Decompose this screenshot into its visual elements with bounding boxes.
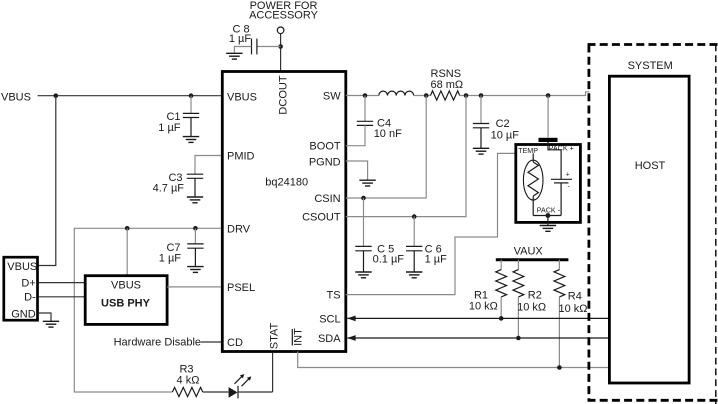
battery pack PACK+ terminal bar xyxy=(539,138,558,142)
wire C8 left lead xyxy=(234,47,251,54)
svg-text:STAT: STAT xyxy=(269,322,281,349)
thermistor in pack xyxy=(523,153,543,215)
capacitor C2 xyxy=(473,96,489,149)
capacitor C8 xyxy=(252,39,257,55)
svg-text:SW: SW xyxy=(323,91,341,103)
LED D1 xyxy=(229,374,273,398)
svg-text:VBUS: VBUS xyxy=(1,91,31,103)
svg-text:HOST: HOST xyxy=(635,160,666,172)
wire DRV run xyxy=(74,228,221,392)
svg-text:GND: GND xyxy=(11,309,36,321)
svg-text:PGND: PGND xyxy=(309,157,341,169)
node junction PACK- xyxy=(546,213,551,218)
ground below C1 xyxy=(183,137,199,143)
svg-text:USB PHY: USB PHY xyxy=(101,298,151,310)
capacitor C4 xyxy=(357,96,373,126)
svg-text:R4: R4 xyxy=(568,290,582,302)
svg-text:1 µF: 1 µF xyxy=(229,33,252,45)
node junction DRV/USB PHY xyxy=(125,226,130,231)
svg-text:SYSTEM: SYSTEM xyxy=(628,60,673,72)
svg-text:10 kΩ: 10 kΩ xyxy=(517,301,546,313)
svg-text:0.1 µF: 0.1 µF xyxy=(373,254,405,266)
resistor R1 xyxy=(496,260,507,319)
svg-text:VBUS: VBUS xyxy=(111,280,141,292)
svg-text:TEMP: TEMP xyxy=(518,146,538,155)
value label C7 xyxy=(159,242,182,264)
USB connector J1 box xyxy=(4,257,38,320)
svg-text:R2: R2 xyxy=(528,289,542,301)
value label C8 xyxy=(229,23,252,45)
svg-text:CSIN: CSIN xyxy=(314,193,340,205)
wire SDA arrowhead xyxy=(347,335,355,341)
node junction rail/PACK+ xyxy=(546,93,551,98)
svg-text:DRV: DRV xyxy=(227,224,251,236)
wire PACK+ internal lead xyxy=(548,142,561,179)
ground below C6 xyxy=(406,272,422,278)
wire INT overline xyxy=(291,329,293,346)
svg-text:4.7 µF: 4.7 µF xyxy=(153,183,185,195)
wire D- to USB PHY xyxy=(39,296,86,298)
wire GND stub xyxy=(39,313,52,321)
ground below C7 xyxy=(187,267,203,273)
node junction INT/R4 xyxy=(557,365,562,370)
SYSTEM dashed box top edge xyxy=(588,43,718,46)
node junction SCL/R1 xyxy=(499,316,504,321)
wire VBUS rail to USB connector xyxy=(39,96,56,266)
svg-text:C2: C2 xyxy=(496,118,510,130)
wire SW rail xyxy=(346,95,379,97)
wire D+ to USB PHY xyxy=(39,282,86,284)
wire DCOUT terminal to IC top xyxy=(280,34,282,71)
SYSTEM dashed box left edge xyxy=(588,45,591,401)
svg-text:INT: INT xyxy=(293,328,305,346)
node junction rail/CSOUT xyxy=(464,93,469,98)
capacitor C6 xyxy=(406,217,422,272)
svg-text:1 µF: 1 µF xyxy=(158,122,181,134)
svg-text:VBUS: VBUS xyxy=(7,261,37,273)
wire SDA line xyxy=(347,337,609,339)
wire VBUS input rail xyxy=(38,95,222,97)
SYSTEM dashed box bottom edge xyxy=(588,399,718,402)
ground USB connector xyxy=(43,321,59,327)
wire CSIN run xyxy=(346,96,426,199)
svg-text:10 kΩ: 10 kΩ xyxy=(558,303,587,315)
capacitor C3 xyxy=(187,174,203,197)
node junction DRV/C7 xyxy=(193,226,198,231)
node junction VBUS/C1 xyxy=(189,93,194,98)
value label R1 xyxy=(469,289,498,312)
svg-text:BOOT: BOOT xyxy=(309,141,340,153)
inductor L1 xyxy=(379,91,414,95)
ground below battery pack xyxy=(540,226,556,232)
ground below C8 xyxy=(226,53,242,59)
capacitor C7 xyxy=(187,228,203,266)
svg-text:PMID: PMID xyxy=(227,151,255,163)
op-amp U1 bq24180 IC box xyxy=(222,72,345,352)
svg-text:PACK +: PACK + xyxy=(549,144,574,153)
value label R2 xyxy=(517,289,546,313)
wire TS run to TEMP xyxy=(346,153,516,294)
svg-text:DCOUT: DCOUT xyxy=(278,75,290,114)
node junction rail/CSIN xyxy=(424,93,429,98)
resistor RSNS xyxy=(431,91,460,100)
svg-text:D+: D+ xyxy=(21,278,35,290)
value label C2 xyxy=(491,118,520,141)
USB PHY U2 box xyxy=(85,276,167,325)
node junction rail/C2 xyxy=(479,93,484,98)
ground below C3 xyxy=(187,197,203,203)
value label RSNS xyxy=(430,68,463,91)
capacitor C1 xyxy=(183,96,199,137)
HOST box xyxy=(609,76,689,383)
svg-text:VBUS: VBUS xyxy=(227,91,257,103)
ground below C5 xyxy=(355,272,371,278)
wire PACK- internal bus xyxy=(533,215,561,217)
resistor R2 xyxy=(513,260,524,338)
node junction CSOUT/C6 xyxy=(412,214,417,219)
battery pack BT1 box xyxy=(516,145,581,223)
value label C5 xyxy=(373,243,405,265)
value label C4 xyxy=(374,117,402,139)
wire SCL line xyxy=(347,317,609,319)
resistor R4 xyxy=(554,260,565,368)
svg-text:CD: CD xyxy=(227,337,243,349)
svg-text:ACCESSORY: ACCESSORY xyxy=(249,10,319,22)
node junction VBUS/connector xyxy=(54,93,59,98)
wire RSNS to system rail xyxy=(460,92,590,96)
svg-text:4 kΩ: 4 kΩ xyxy=(177,374,200,386)
svg-text:PACK -: PACK - xyxy=(537,206,561,215)
value label C6 xyxy=(425,243,448,265)
node junction SW/C4 xyxy=(363,93,368,98)
svg-text:CSOUT: CSOUT xyxy=(302,211,341,223)
wire PACK- to ground xyxy=(547,216,549,226)
wire R3 to LED xyxy=(203,391,229,393)
value label R4 xyxy=(558,290,587,315)
wire PACK+ drop xyxy=(547,96,549,138)
wire USB PHY VBUS feed xyxy=(126,228,128,275)
value label R3 xyxy=(177,364,200,387)
wire INT run xyxy=(298,352,610,368)
value label C1 xyxy=(158,111,181,134)
wire C8 right lead xyxy=(257,46,281,48)
battery cell in pack xyxy=(551,172,572,216)
wire USB PHY to PSEL xyxy=(167,286,221,288)
capacitor C5 xyxy=(355,198,371,272)
wire VAUX bus bar xyxy=(496,258,569,261)
svg-text:1 µF: 1 µF xyxy=(425,254,448,266)
SYSTEM dashed box right edge xyxy=(715,45,717,404)
svg-text:VAUX: VAUX xyxy=(514,246,544,258)
wire PMID to C3 xyxy=(195,156,221,175)
ground PGND xyxy=(359,180,375,186)
svg-text:Hardware Disable: Hardware Disable xyxy=(114,336,201,348)
svg-text:68 mΩ: 68 mΩ xyxy=(430,79,463,91)
node POWER FOR ACCESSORY label xyxy=(249,0,319,22)
svg-text:SDA: SDA xyxy=(318,333,341,345)
svg-text:D-: D- xyxy=(24,292,36,304)
resistor R3 xyxy=(172,387,202,396)
node junction CSIN/C5 xyxy=(361,196,366,201)
node junction DCOUT/C8 xyxy=(278,44,283,49)
svg-text:PSEL: PSEL xyxy=(227,282,255,294)
svg-text:1 µF: 1 µF xyxy=(159,252,182,264)
svg-text:SCL: SCL xyxy=(319,314,340,326)
svg-text:10 kΩ: 10 kΩ xyxy=(469,300,498,312)
svg-text:TS: TS xyxy=(327,290,341,302)
svg-text:bq24180: bq24180 xyxy=(265,177,308,189)
wire LED to STAT xyxy=(272,353,274,392)
svg-text:+: + xyxy=(566,172,570,179)
wire CSOUT run xyxy=(346,96,466,217)
terminal circle POWER FOR ACCESSORY xyxy=(277,27,284,34)
ground below C2 xyxy=(473,148,489,154)
svg-text:10 µF: 10 µF xyxy=(491,130,520,142)
wire SCL arrowhead xyxy=(347,316,355,322)
node junction SDA/R2 xyxy=(516,336,521,341)
wire inductor to RSNS xyxy=(414,95,431,97)
svg-text:10 nF: 10 nF xyxy=(374,128,402,140)
wire C4 to BOOT xyxy=(346,125,365,145)
value label C3 xyxy=(153,172,185,195)
wire Hardware Disable to CD xyxy=(201,341,221,343)
wire PGND to ground xyxy=(346,161,368,180)
